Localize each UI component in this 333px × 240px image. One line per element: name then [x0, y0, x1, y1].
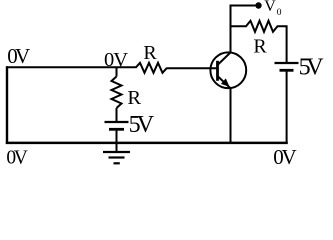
svg-text:0V: 0V — [6, 147, 28, 167]
svg-text:0: 0 — [277, 8, 282, 18]
svg-text:5V: 5V — [129, 112, 155, 138]
svg-text:0V: 0V — [7, 44, 30, 68]
svg-text:0V: 0V — [273, 145, 297, 167]
svg-text:R: R — [143, 42, 157, 64]
svg-text:V: V — [264, 0, 276, 15]
svg-text:0V: 0V — [104, 49, 128, 71]
svg-text:5V: 5V — [299, 54, 325, 80]
svg-text:R: R — [253, 35, 267, 57]
svg-text:R: R — [127, 87, 141, 109]
